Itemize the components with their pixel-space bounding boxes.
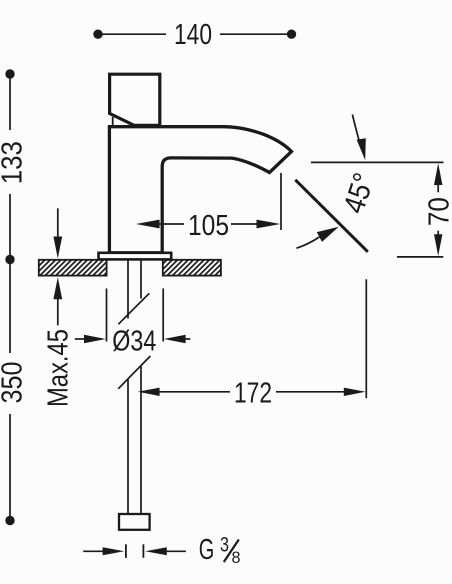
faucet body and spout outline (109, 127, 291, 253)
dimension 133 line lower segment (9, 194, 11, 260)
dimension text Max.45 (rotated) (43, 329, 75, 407)
supply pipe left edge lower (127, 380, 129, 515)
dimension 350 line lower segment (9, 414, 11, 521)
supply pipe right edge upper (140, 260, 142, 299)
105 right tail (231, 223, 258, 225)
G3/8 left arrowhead (pointing right) (103, 547, 125, 555)
svg-text:133: 133 (0, 141, 29, 184)
svg-text:140: 140 (174, 19, 212, 51)
connection nut (119, 514, 150, 530)
G3/8 left tick (125, 544, 127, 558)
G3/8 right tail (165, 550, 186, 552)
curved leader arrowhead (317, 227, 339, 242)
70 lower line (437, 231, 439, 237)
dimension 350 line upper segment (9, 260, 11, 354)
svg-text:70: 70 (424, 197, 452, 226)
dimension text 70 (rotated) (424, 197, 452, 226)
dimension 140 left dot (93, 30, 102, 39)
svg-text:3: 3 (220, 533, 229, 556)
body left edge under handle notch (112, 117, 114, 127)
dimension 133/350 shared dot (5, 255, 14, 264)
svg-text:105: 105 (188, 210, 229, 242)
172 right arrowhead (344, 388, 366, 396)
172 extension line (365, 279, 367, 398)
svg-text:45°: 45° (338, 169, 382, 217)
pipe break slash lower (118, 356, 150, 389)
G3/8 right tick (142, 544, 144, 558)
70 lower arrowhead (434, 234, 442, 256)
G3/8 right arrowhead (pointing left) (145, 547, 167, 555)
70 bottom reference line (397, 256, 443, 258)
dimension 140 line right segment (220, 33, 292, 35)
dimension text 45deg (rotated) (338, 169, 382, 217)
Max.45 lower arrow line (57, 296, 59, 325)
45 degree water line (295, 180, 368, 252)
172 left arrowhead (138, 388, 160, 396)
dimension 140 right dot (287, 30, 296, 39)
svg-text:Max.45: Max.45 (43, 329, 75, 407)
curved leader arrow to 45 line (296, 237, 319, 248)
supply pipe right edge lower (140, 367, 142, 515)
172 left tail (158, 391, 230, 393)
70 upper line (437, 183, 439, 192)
handle lever (110, 74, 160, 125)
svg-text:350: 350 (0, 362, 29, 404)
Ø34 left arrow tail (75, 338, 88, 340)
Ø34 right extension line (162, 289, 164, 342)
thread label fraction slash (224, 540, 239, 563)
Max.45 lower arrowhead (53, 277, 62, 299)
base flange (99, 253, 172, 260)
105 extension line at spout tip (280, 173, 282, 230)
Ø34 right arrowhead (164, 335, 186, 343)
105 left tail (157, 223, 184, 225)
172 right tail (276, 391, 344, 393)
supply pipe left edge upper (127, 260, 129, 319)
countertop deck left hatched block (39, 260, 107, 276)
spout outlet level line (311, 161, 444, 163)
dimension 140 line left segment (98, 33, 166, 35)
G3/8 left tail (83, 550, 104, 552)
svg-text:172: 172 (234, 377, 272, 409)
dimension text 350 (rotated) (0, 362, 29, 404)
dimension 350 bottom dot (5, 516, 14, 525)
Ø34 left arrowhead (84, 335, 106, 343)
70 upper arrowhead (434, 163, 442, 185)
dimension text 133 (rotated) (0, 141, 29, 184)
Ø34 right arrow tail (184, 338, 190, 340)
svg-text:G: G (199, 534, 215, 566)
Max.45 upper arrow line (57, 208, 59, 240)
105 left arrowhead (136, 220, 160, 229)
dimension 133 top dot (5, 69, 14, 78)
svg-text:Ø34: Ø34 (112, 326, 156, 358)
countertop deck right hatched block (163, 260, 221, 276)
svg-text:8: 8 (232, 548, 241, 567)
pipe break slash upper (118, 293, 149, 324)
Max.45 upper arrowhead (53, 237, 62, 259)
leader arrowhead down (357, 138, 366, 160)
dimension 133 line upper segment (9, 74, 11, 130)
Ø34 left extension line (106, 289, 108, 342)
105 right arrowhead (257, 220, 281, 229)
leader arrow to outlet line (curved) (352, 115, 361, 149)
